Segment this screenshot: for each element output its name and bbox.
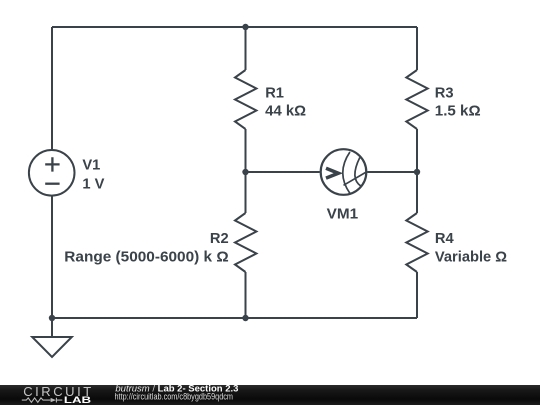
node middle R1/R2/VM junction xyxy=(242,169,248,175)
wire right column mid xyxy=(416,129,418,213)
wire left rail upper xyxy=(51,27,53,149)
wire node to VM1 left xyxy=(246,171,320,173)
voltage source V1 xyxy=(29,150,75,196)
CircuitLab logo resistor-diode squiggle xyxy=(22,398,63,403)
svg-text:R4: R4 xyxy=(435,231,455,247)
node bottom left ground junction xyxy=(49,315,55,321)
resistor R2 xyxy=(235,213,256,272)
svg-text:Range (5000-6000) k Ω: Range (5000-6000) k Ω xyxy=(64,249,229,265)
wire middle column mid xyxy=(245,129,247,213)
resistor R3 xyxy=(406,70,427,129)
wire right column top xyxy=(416,27,418,70)
resistor R4 xyxy=(406,213,427,272)
node right R3/R4/VM junction xyxy=(414,169,420,175)
wire bottom rail xyxy=(52,317,417,319)
svg-text:VM1: VM1 xyxy=(327,207,359,223)
voltmeter VM1 xyxy=(321,149,367,195)
svg-text:R1: R1 xyxy=(265,85,284,101)
svg-text:V1: V1 xyxy=(82,158,100,174)
svg-text:R3: R3 xyxy=(435,85,454,101)
wire left rail lower xyxy=(51,196,53,318)
node bottom middle xyxy=(242,315,248,321)
svg-text:http://circuitlab.com/c8bygdb5: http://circuitlab.com/c8bygdb59qdcm xyxy=(115,391,234,402)
wire right column bottom xyxy=(416,272,418,318)
svg-text:Variable Ω: Variable Ω xyxy=(435,249,507,265)
wire VM1 right to node xyxy=(367,171,417,173)
node at top middle xyxy=(242,24,248,30)
svg-text:44 kΩ: 44 kΩ xyxy=(265,103,306,119)
svg-text:1 V: 1 V xyxy=(82,177,104,193)
wire middle column top xyxy=(245,27,247,70)
svg-text:1.5 kΩ: 1.5 kΩ xyxy=(435,103,481,119)
resistor R1 xyxy=(235,70,256,129)
svg-text:R2: R2 xyxy=(210,231,229,247)
svg-text:LAB: LAB xyxy=(64,395,91,405)
ground xyxy=(32,318,72,357)
wire top rail xyxy=(52,26,417,28)
wire middle column bottom xyxy=(245,272,247,318)
